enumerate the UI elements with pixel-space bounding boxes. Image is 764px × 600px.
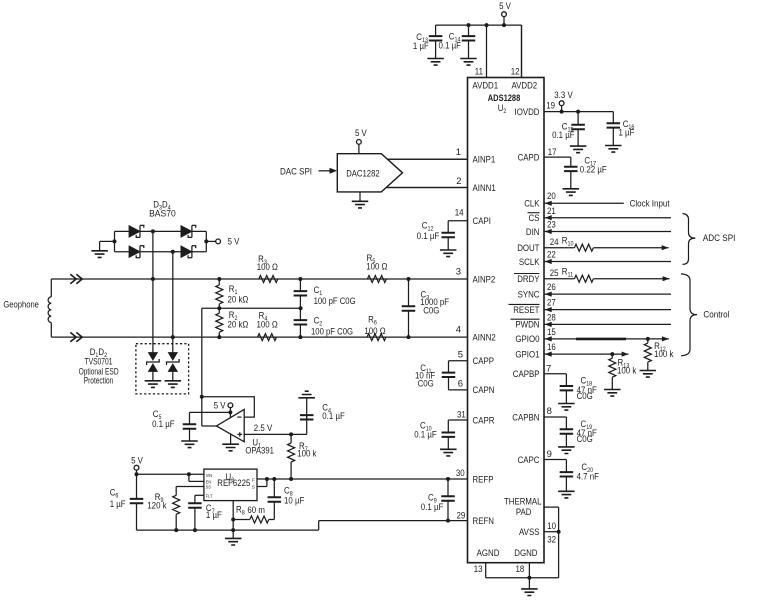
svg-text:AINN1: AINN1	[473, 183, 496, 194]
wire AVSS pin 10 pin 32	[519, 521, 561, 578]
capacitor C15	[552, 110, 585, 147]
ground D1	[145, 381, 162, 388]
svg-text:CLK: CLK	[524, 199, 540, 210]
wire AVDD2 pin 12 stub	[511, 25, 538, 92]
connector chevron top	[70, 274, 82, 283]
svg-text:120 k: 120 k	[147, 501, 166, 512]
TVS optional ESD protection box	[136, 344, 189, 394]
svg-text:DAC SPI: DAC SPI	[280, 166, 312, 177]
svg-text:22: 22	[547, 250, 556, 261]
diode D4 BAS70 top-right	[181, 225, 196, 237]
brace ADC SPI	[683, 214, 736, 265]
resistor R8	[233, 504, 274, 523]
svg-text:5 V: 5 V	[228, 237, 240, 248]
resistor R2	[216, 306, 249, 339]
svg-text:C0G: C0G	[423, 305, 439, 316]
wire DOUT pin 24 with resistor R10	[517, 236, 668, 255]
wire AINN1 pin 2	[387, 176, 496, 194]
brace Control	[681, 274, 729, 356]
wire CAPBN pin 8	[512, 406, 566, 429]
wire THERMAL PAD stub	[504, 497, 559, 532]
svg-text:11: 11	[475, 67, 483, 78]
wire AVDD1 pin 11 stub	[472, 25, 498, 92]
svg-text:4: 4	[456, 325, 461, 336]
svg-text:CAPP: CAPP	[473, 356, 495, 367]
svg-text:20 kΩ: 20 kΩ	[228, 320, 249, 331]
wire SCLK pin 22	[519, 250, 671, 268]
svg-text:27: 27	[547, 298, 556, 309]
capacitor C12	[417, 221, 455, 251]
svg-text:AVDD1: AVDD1	[472, 81, 498, 92]
wire PWDN pin 28	[511, 313, 672, 331]
svg-text:9: 9	[547, 449, 552, 460]
svg-text:REFP: REFP	[473, 474, 494, 485]
svg-text:DIN: DIN	[526, 227, 540, 238]
svg-text:17: 17	[548, 147, 557, 158]
wire DAC1282 output to AINN1	[387, 187, 467, 189]
wire REFP pin 30	[257, 468, 494, 485]
svg-text:0.1 µF: 0.1 µF	[152, 419, 175, 430]
svg-text:0.1 µF: 0.1 µF	[417, 231, 440, 242]
svg-text:BAS70: BAS70	[149, 208, 176, 219]
svg-text:CAPBN: CAPBN	[512, 412, 539, 423]
svg-text:26: 26	[547, 282, 556, 293]
resistor R4	[257, 311, 278, 341]
wire bottom rail mid to AINN2	[171, 250, 175, 353]
ground D2	[165, 381, 182, 388]
capacitor C9	[421, 477, 455, 523]
op-amp U4 DAC1282 body	[337, 154, 402, 192]
wire CAPR pin 31	[448, 410, 494, 427]
resistor R6	[364, 315, 386, 341]
resistor R12	[644, 339, 673, 371]
svg-text:0.1 µF: 0.1 µF	[414, 429, 437, 440]
svg-text:0.1 µF: 0.1 µF	[552, 130, 575, 141]
svg-text:PAD: PAD	[516, 507, 532, 518]
svg-text:32: 32	[547, 534, 556, 545]
wire CAPD pin 17	[518, 147, 571, 167]
resistor R3	[257, 254, 278, 282]
ground C12	[440, 250, 457, 257]
ground C5	[181, 441, 198, 448]
svg-text:DGND: DGND	[514, 548, 537, 559]
svg-text:100 Ω: 100 Ω	[257, 262, 278, 273]
wire op-amp feedback	[202, 397, 255, 426]
diode BAS70 bottom-left	[129, 246, 144, 258]
wire 2.5V output	[244, 423, 307, 434]
wire CAPP pin 5	[449, 350, 495, 368]
wire REFN pin 29	[319, 510, 494, 527]
capacitor C16	[607, 112, 635, 146]
wire reference return rail	[137, 521, 319, 531]
svg-text:29: 29	[457, 510, 466, 521]
wire BAS70 top rail	[115, 230, 207, 232]
svg-text:0.1 µF: 0.1 µF	[322, 411, 345, 422]
ground R12	[640, 371, 657, 378]
svg-text:5 V: 5 V	[131, 456, 143, 467]
svg-text:Control: Control	[703, 310, 729, 321]
wire EN tie to VIN	[189, 474, 204, 481]
svg-text:3: 3	[456, 267, 461, 278]
resistor R1	[216, 277, 249, 308]
svg-text:ADC SPI: ADC SPI	[703, 233, 736, 244]
capacitor C5	[152, 409, 230, 441]
ground C18	[558, 404, 575, 411]
wire bias vertical from midline to op-amp	[200, 308, 204, 426]
svg-text:19: 19	[546, 101, 555, 112]
svg-text:1: 1	[456, 147, 461, 158]
ground C4 inverted	[298, 391, 315, 398]
capacitor C19	[560, 419, 597, 447]
svg-text:2: 2	[456, 176, 461, 187]
connector chevron bottom	[70, 332, 82, 341]
wire IOVDD pin 19	[515, 101, 614, 119]
svg-text:CAPR: CAPR	[473, 415, 495, 426]
resistor R13	[609, 354, 637, 389]
ground BAS70	[91, 251, 108, 258]
diode BAS70 bottom-right	[181, 246, 196, 258]
svg-text:30: 30	[456, 468, 465, 479]
svg-text:Protection: Protection	[84, 375, 114, 386]
wire GPIO1 pin 16	[515, 342, 628, 360]
svg-text:8: 8	[547, 406, 552, 417]
svg-text:5 V: 5 V	[214, 400, 226, 411]
wire AINP2 line	[51, 278, 467, 280]
svg-text:CS: CS	[529, 213, 540, 224]
svg-text:2.5 V: 2.5 V	[254, 423, 273, 434]
wire DIN pin 23	[526, 220, 671, 238]
wire REF6225 ground pin	[231, 501, 235, 532]
wire BAS70 bottom rail	[115, 251, 207, 253]
node 5V terminal DAC1282	[355, 128, 367, 154]
wire CS pin 21	[528, 206, 672, 224]
svg-text:60 m: 60 m	[247, 505, 265, 516]
svg-text:ADS1288: ADS1288	[488, 93, 521, 104]
svg-text:10: 10	[547, 521, 556, 532]
capacitor C6	[110, 474, 144, 530]
svg-text:AINP1: AINP1	[473, 155, 496, 166]
resistor R7	[288, 432, 317, 481]
svg-text:C0G: C0G	[418, 379, 434, 390]
svg-text:16: 16	[547, 342, 556, 353]
svg-text:0.1 µF: 0.1 µF	[439, 41, 462, 52]
capacitor C3	[402, 277, 450, 339]
ground C16	[605, 146, 622, 153]
wire CAPN pin 6	[449, 379, 495, 397]
wire bottom ground rail	[486, 576, 559, 589]
capacitor C18	[560, 376, 597, 404]
capacitor C1	[294, 277, 356, 308]
svg-text:21: 21	[547, 206, 556, 217]
svg-text:4.7 nF: 4.7 nF	[577, 471, 600, 482]
wire AINP1 pin 1	[387, 147, 496, 166]
svg-text:100 Ω: 100 Ω	[364, 326, 385, 337]
svg-text:VIN: VIN	[206, 473, 212, 478]
svg-text:IOVDD: IOVDD	[515, 107, 540, 118]
svg-text:AVDD2: AVDD2	[512, 81, 538, 92]
wire CAPI pin 14	[448, 208, 491, 228]
resistor R9	[147, 487, 204, 533]
svg-text:12: 12	[511, 67, 520, 78]
ground REF6225	[225, 530, 242, 545]
svg-text:15: 15	[547, 327, 556, 338]
wire DAC SPI input arrow	[280, 166, 337, 177]
node 5V terminal op-amp	[214, 400, 233, 418]
capacitor C10	[414, 420, 455, 449]
op-amp U1 OPA391	[216, 409, 274, 456]
capacitor C8	[268, 479, 305, 520]
diode D2 TVS0701	[167, 353, 180, 381]
ground C20	[558, 491, 575, 498]
wire REF6225 output F S	[257, 477, 276, 487]
svg-text:RESET: RESET	[513, 305, 539, 316]
svg-text:25: 25	[550, 268, 559, 279]
svg-text:S: S	[252, 484, 255, 489]
svg-text:1 µF: 1 µF	[110, 499, 126, 510]
svg-text:1 µF: 1 µF	[413, 41, 429, 52]
ground C19	[558, 447, 575, 454]
svg-text:AINN2: AINN2	[473, 332, 496, 343]
svg-text:1 µF: 1 µF	[619, 128, 635, 139]
ground op-amp	[222, 434, 239, 451]
svg-text:23: 23	[547, 220, 556, 231]
svg-text:100 k: 100 k	[617, 366, 636, 377]
svg-text:GPIO1: GPIO1	[515, 349, 539, 360]
svg-text:5 V: 5 V	[355, 128, 367, 139]
wire DRDY pin 25 with resistor R11	[514, 267, 670, 286]
wire top rail mid to AINP2	[151, 229, 155, 352]
node 5V terminal REF6225	[131, 456, 143, 477]
svg-text:SCLK: SCLK	[519, 257, 540, 268]
svg-text:100 k: 100 k	[654, 349, 673, 360]
svg-text:7: 7	[546, 364, 551, 375]
svg-text:OPA391: OPA391	[245, 446, 274, 457]
wire RESET pin 27	[509, 298, 672, 316]
diode D1 TVS0701	[147, 353, 160, 381]
voltage reference U3 REF6225 body	[204, 469, 257, 501]
svg-text:Clock Input: Clock Input	[630, 199, 670, 210]
svg-text:PWDN: PWDN	[515, 320, 539, 331]
svg-text:10 µF: 10 µF	[284, 496, 304, 507]
svg-text:CAPBP: CAPBP	[513, 369, 540, 380]
capacitor C11	[415, 361, 455, 390]
label D1 D2 TVS0701	[79, 347, 119, 386]
capacitor C2	[294, 308, 353, 339]
ground C10	[440, 449, 457, 456]
svg-text:100 pF C0G: 100 pF C0G	[311, 326, 353, 337]
svg-text:13: 13	[474, 564, 483, 575]
svg-text:100 Ω: 100 Ω	[366, 261, 387, 272]
svg-text:AVSS: AVSS	[519, 527, 540, 538]
svg-text:C0G: C0G	[577, 434, 593, 445]
node 5V terminal BAS70	[216, 237, 240, 248]
capacitor C7	[188, 495, 222, 532]
svg-text:1 µF: 1 µF	[206, 510, 222, 521]
svg-text:CAPI: CAPI	[473, 216, 491, 227]
svg-text:F: F	[252, 478, 255, 483]
svg-text:AINP2: AINP2	[473, 274, 496, 285]
capacitor C17	[564, 156, 607, 189]
node pin 3 AINP2	[456, 267, 496, 286]
svg-text:6: 6	[458, 379, 463, 390]
svg-text:SS: SS	[206, 485, 211, 490]
capacitor C13	[413, 25, 442, 58]
ground DGND	[521, 589, 538, 596]
wire CLK pin 20 clock input	[524, 191, 670, 210]
wire SYNC pin 26	[518, 282, 671, 300]
ground DAC1282	[352, 192, 369, 208]
wire BAS70 right vertical to 5V	[204, 231, 215, 251]
wire CAPBP pin 7	[513, 364, 567, 387]
svg-text:CAPN: CAPN	[473, 385, 495, 396]
svg-text:CAPC: CAPC	[518, 455, 540, 466]
wire GPIO0 pin 15	[515, 327, 668, 345]
ground C17	[563, 189, 580, 196]
wire BAS70 left vertical	[100, 231, 117, 251]
svg-text:THERMAL: THERMAL	[504, 497, 542, 508]
svg-text:REF6225: REF6225	[217, 478, 250, 488]
svg-text:14: 14	[455, 208, 464, 219]
ground C14	[460, 59, 477, 66]
svg-text:FLT: FLT	[206, 494, 213, 499]
wire AGND pin 13	[474, 548, 500, 578]
svg-text:AGND: AGND	[477, 548, 500, 559]
wire AINN2 line	[51, 336, 467, 338]
svg-text:31: 31	[457, 410, 466, 421]
wire CAPC pin 9	[518, 449, 567, 472]
label D3 D4 BAS70	[149, 200, 176, 220]
wire 5V rail	[436, 23, 522, 77]
svg-text:0.22 µF: 0.22 µF	[580, 165, 607, 176]
svg-text:5: 5	[458, 350, 463, 361]
capacitor C4	[300, 398, 345, 435]
resistor R5	[366, 253, 387, 282]
svg-text:24: 24	[550, 237, 559, 248]
wire midline bias	[202, 306, 303, 310]
svg-text:GPIO0: GPIO0	[515, 334, 539, 345]
svg-text:Geophone: Geophone	[3, 300, 39, 311]
wire DGND pin 18	[514, 548, 537, 578]
svg-text:28: 28	[547, 313, 556, 324]
ground C13	[427, 59, 444, 66]
svg-text:20 kΩ: 20 kΩ	[228, 295, 249, 306]
svg-text:20: 20	[547, 191, 556, 202]
svg-text:3.3 V: 3.3 V	[554, 90, 573, 101]
svg-text:100 k: 100 k	[297, 449, 316, 460]
svg-text:DAC1282: DAC1282	[346, 168, 380, 179]
svg-text:100 pF C0G: 100 pF C0G	[314, 296, 356, 307]
capacitor C20	[560, 462, 600, 491]
svg-text:C0G: C0G	[577, 391, 593, 402]
op-amp U2 ADS1288 IC body	[468, 78, 545, 563]
svg-text:SYNC: SYNC	[518, 289, 540, 300]
node pin 4 AINN2	[456, 325, 496, 344]
svg-text:REFN: REFN	[473, 516, 495, 527]
ground C15	[570, 146, 587, 153]
svg-text:CAPD: CAPD	[518, 152, 540, 163]
capacitor C14	[439, 25, 476, 58]
diode D3 BAS70 top-left	[129, 225, 144, 237]
svg-text:100 Ω: 100 Ω	[257, 319, 278, 330]
svg-text:DOUT: DOUT	[517, 243, 539, 254]
node 5V terminal top	[499, 1, 511, 27]
wire VIN 5V rail	[137, 472, 204, 476]
svg-text:18: 18	[516, 564, 525, 575]
node 3.3V terminal	[554, 90, 573, 114]
svg-text:0.1 µF: 0.1 µF	[421, 502, 444, 513]
wire DAC1282 output to AINP1	[387, 158, 467, 160]
svg-text:DRDY: DRDY	[517, 274, 540, 285]
geophone source	[3, 279, 51, 337]
svg-text:5 V: 5 V	[499, 1, 511, 12]
ground R13	[604, 390, 621, 397]
